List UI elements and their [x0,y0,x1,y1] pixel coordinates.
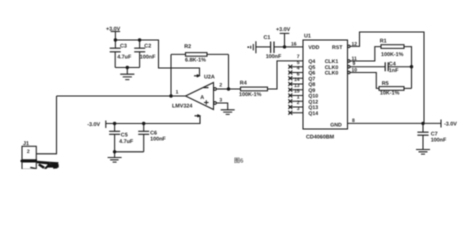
svg-text:12: 12 [352,41,358,47]
svg-text:6.8K-1%: 6.8K-1% [185,57,206,63]
svg-text:R1: R1 [380,38,387,44]
svg-text:C2: C2 [144,44,151,50]
svg-text:100nF: 100nF [266,54,282,60]
svg-text:3: 3 [219,98,222,104]
svg-text:C7: C7 [431,131,438,137]
svg-text:CD4060BM: CD4060BM [306,135,335,141]
svg-text:LMV324: LMV324 [172,104,192,110]
svg-text:4.7uF: 4.7uF [119,139,134,145]
svg-text:100nF: 100nF [150,137,166,143]
svg-text:J1: J1 [23,141,29,147]
svg-text:4.7uF: 4.7uF [117,55,132,61]
svg-text:100K-1%: 100K-1% [239,92,262,98]
svg-text:8: 8 [352,118,355,124]
svg-text:VDD: VDD [308,45,319,51]
svg-text:Q14: Q14 [308,111,318,117]
svg-text:16: 16 [291,41,297,47]
svg-text:U1: U1 [304,34,311,40]
svg-text:-3.0V: -3.0V [444,122,457,128]
svg-text:100nF: 100nF [431,138,447,144]
svg-text:1nF: 1nF [389,68,399,74]
svg-text:RST: RST [332,45,343,51]
svg-text:R4: R4 [240,80,247,86]
svg-text:C6: C6 [150,130,157,136]
svg-text:R5: R5 [382,81,389,87]
svg-text:9: 9 [353,61,356,67]
svg-text:GND: GND [330,122,342,128]
svg-text:C5: C5 [121,133,128,139]
svg-text:10: 10 [352,68,358,74]
svg-text:R2: R2 [184,44,191,50]
svg-text:C3: C3 [120,44,127,50]
svg-text:+3.0V: +3.0V [106,26,121,32]
svg-text:3: 3 [297,106,300,112]
svg-text:1: 1 [176,90,179,96]
svg-text:100K-1%: 100K-1% [381,52,404,58]
svg-text:图6: 图6 [234,157,244,164]
svg-text:C1: C1 [264,35,271,41]
svg-text:A: A [200,95,204,101]
svg-text:2: 2 [219,83,222,89]
svg-text:C4: C4 [389,61,396,67]
svg-text:+3.0V: +3.0V [276,27,291,33]
svg-text:-3.0V: -3.0V [87,122,100,128]
svg-text:CLK0: CLK0 [325,71,339,77]
svg-text:U2A: U2A [204,75,215,81]
svg-text:100nF: 100nF [140,55,156,61]
svg-text:10K-1%: 10K-1% [380,91,400,97]
svg-text:2: 2 [27,149,30,155]
